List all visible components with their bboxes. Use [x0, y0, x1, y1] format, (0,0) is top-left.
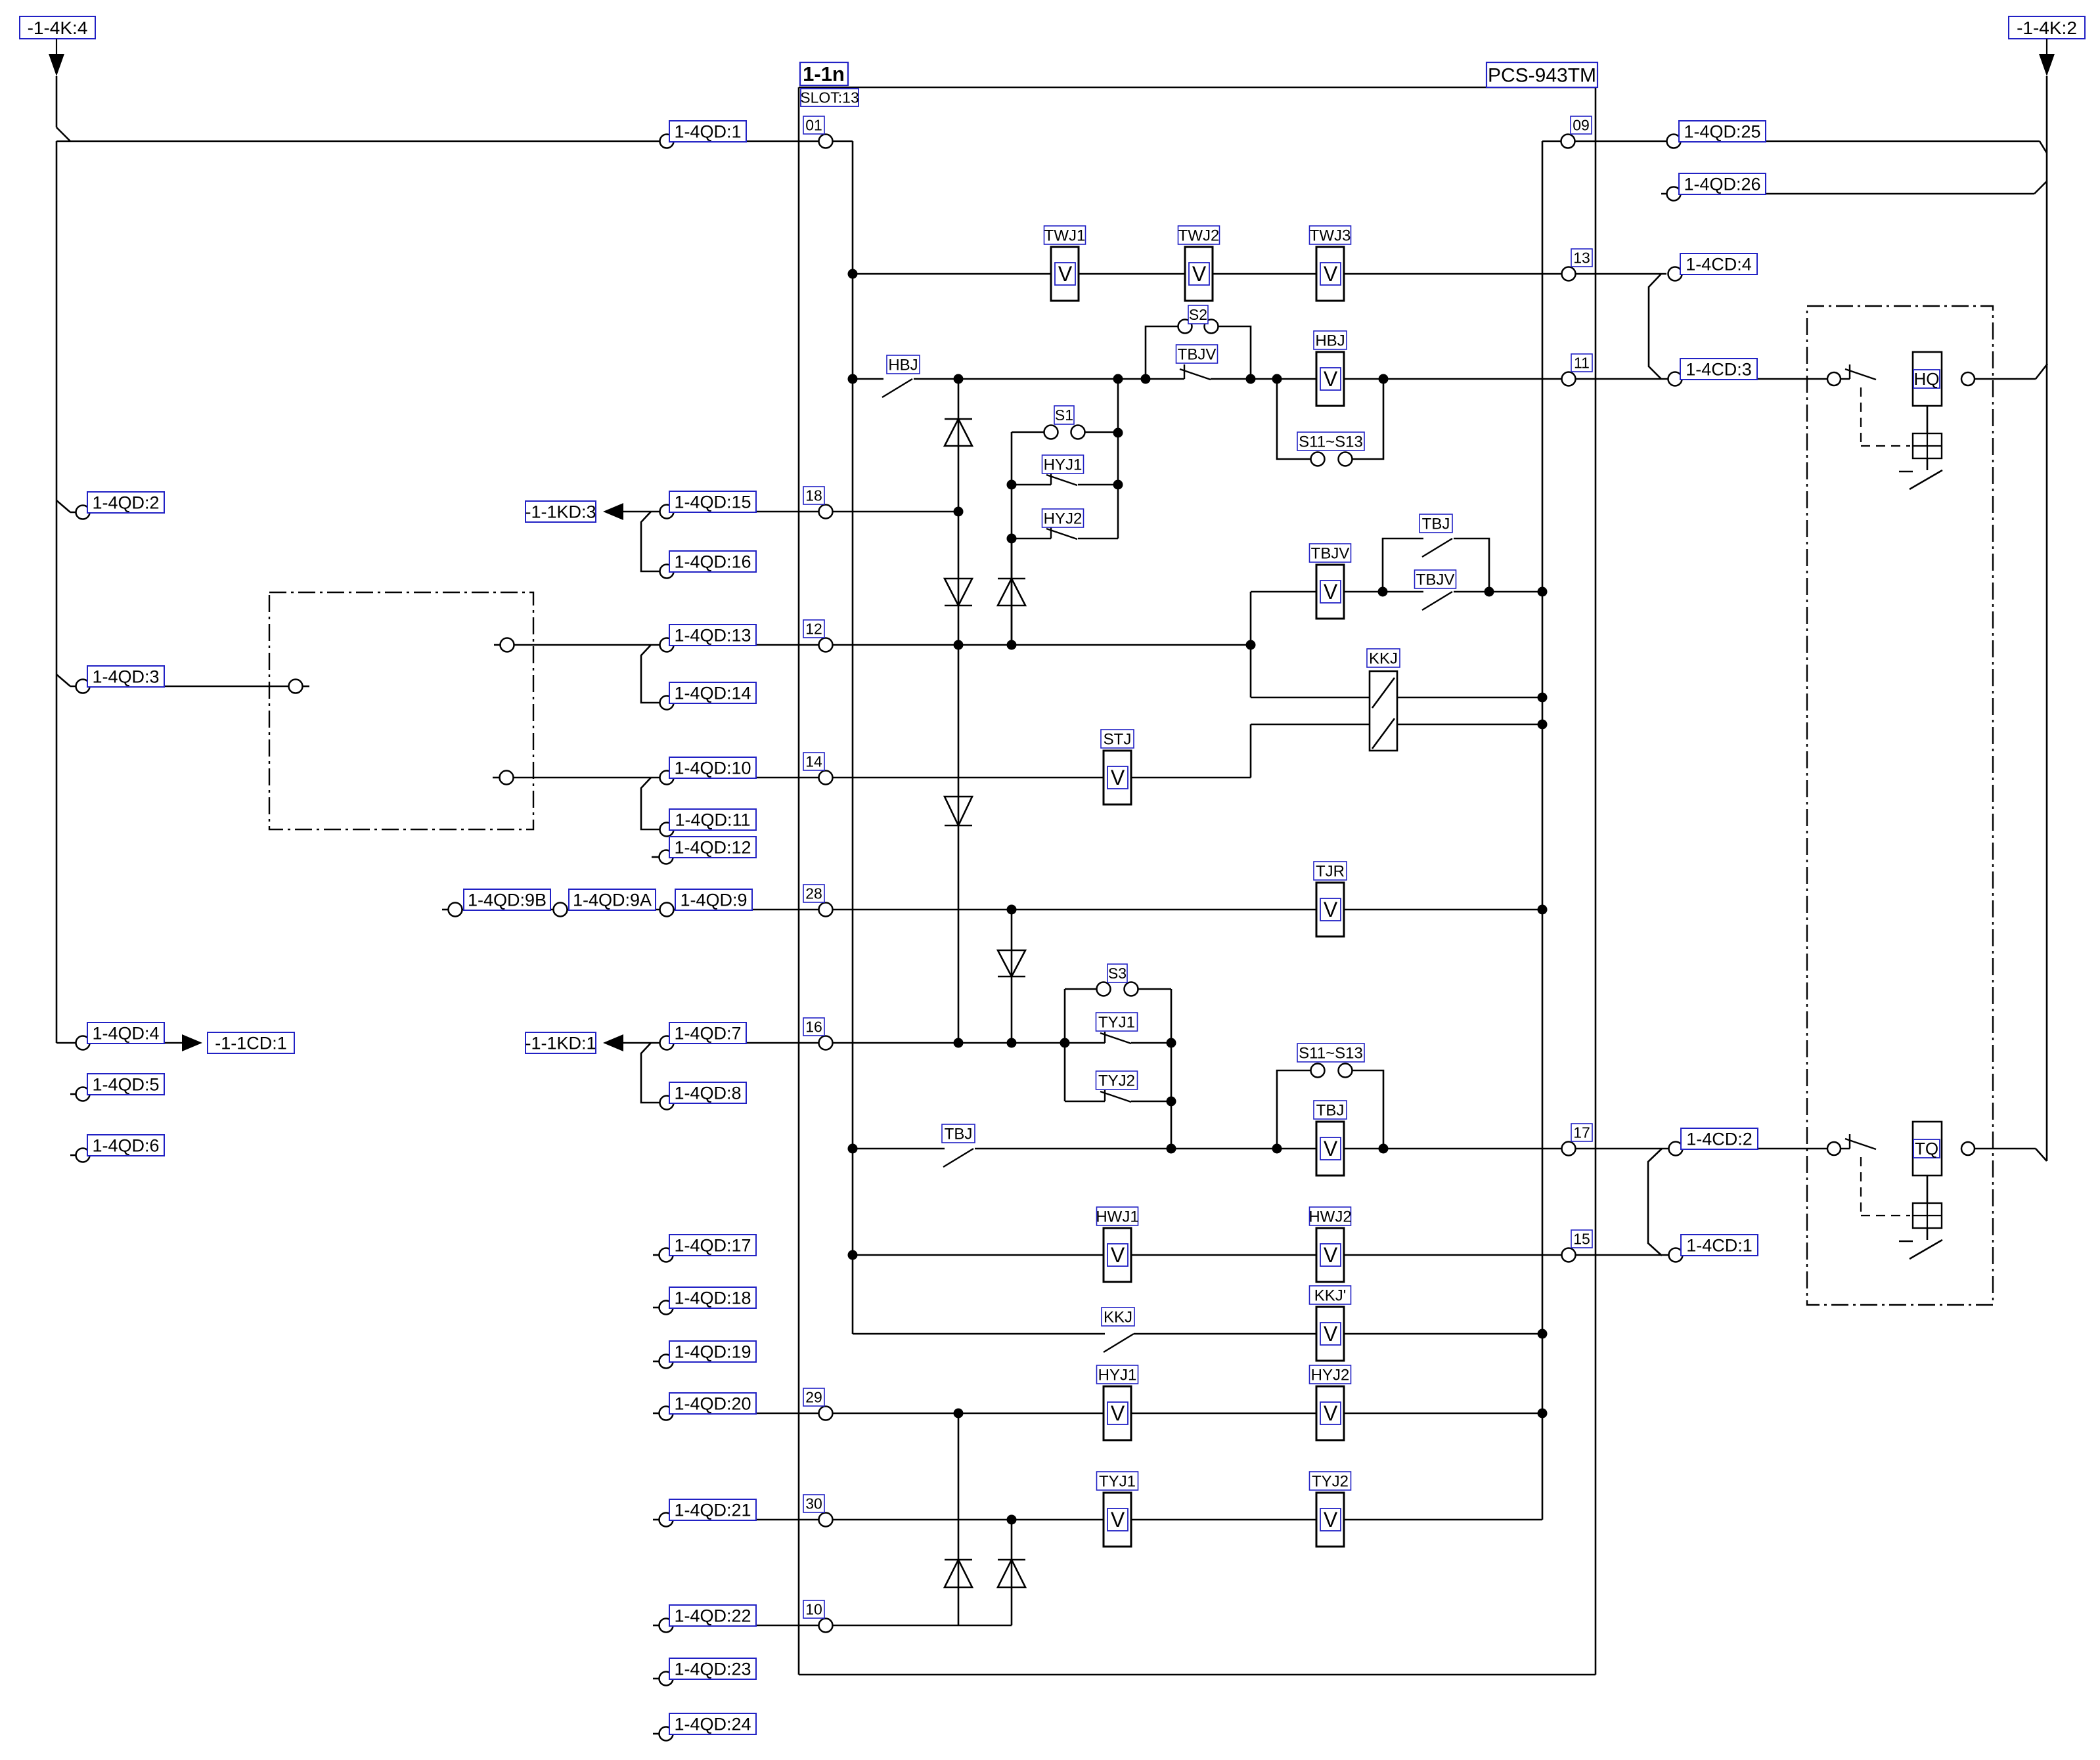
- label 1-4QD:19: [669, 1341, 756, 1362]
- label 1-4QD:25: [1679, 121, 1766, 142]
- wire row 11 middle segment: [914, 378, 1184, 380]
- junction node row11 / diode chain: [954, 374, 964, 384]
- terminal 1-4QD:2 circle: [76, 506, 90, 519]
- contact TBJ (upper, NO) bracket: [1383, 539, 1423, 592]
- svg-text:HBJ: HBJ: [1315, 332, 1345, 349]
- terminal 12 circle: [819, 638, 833, 652]
- coil TQ: [1913, 1122, 1942, 1176]
- wire row 30: [653, 1519, 659, 1521]
- svg-text:V: V: [1324, 1322, 1338, 1346]
- label 1-4QD:12: [669, 837, 756, 858]
- label 1-4QD:8: [669, 1082, 746, 1103]
- svg-text:TWJ3: TWJ3: [1310, 227, 1351, 244]
- label 1-4QD:18: [669, 1287, 756, 1308]
- label 1-4QD:22: [669, 1605, 756, 1626]
- junction node HYJ1 right: [1113, 480, 1123, 490]
- terminal 14 circle: [819, 771, 833, 785]
- svg-text:1-4QD:23: 1-4QD:23: [674, 1659, 751, 1679]
- svg-text:HWJ1: HWJ1: [1096, 1208, 1138, 1225]
- label S11~S13 upper: [1297, 432, 1364, 451]
- svg-text:STJ: STJ: [1104, 730, 1132, 748]
- svg-text:1-4QD:14: 1-4QD:14: [674, 684, 751, 703]
- svg-text:15: 15: [1573, 1231, 1590, 1248]
- svg-text:S11~S13: S11~S13: [1299, 1044, 1363, 1062]
- svg-text:TBJV: TBJV: [1178, 345, 1217, 363]
- terminal 01 circle: [819, 135, 833, 148]
- svg-text:1-4QD:9B: 1-4QD:9B: [468, 891, 547, 910]
- dash-dot box (circuit breaker, right): [1807, 306, 1993, 1305]
- dash-dot box (external equipment, left): [269, 592, 533, 829]
- svg-text:HYJ2: HYJ2: [1311, 1366, 1350, 1384]
- wire jog strap 1-4CD:4 to 1-4CD:3: [1649, 274, 1661, 379]
- junction node row11 / feed: [848, 374, 858, 384]
- svg-text:V: V: [1324, 898, 1338, 921]
- stub terminal 1-4QD:23: [653, 1678, 659, 1680]
- stub terminal 1-4QD:5: [70, 1093, 76, 1095]
- wire KKJ lower row: [1251, 724, 1542, 726]
- svg-text:TYJ2: TYJ2: [1098, 1072, 1135, 1089]
- junction node row11 / S11 left: [1272, 374, 1282, 384]
- relay coil HWJ1: [1104, 1228, 1131, 1282]
- wire S3 block left bracket: [1064, 989, 1066, 1101]
- contact TBJ (NO) row17: [943, 1149, 973, 1167]
- svg-text:1-4QD:1: 1-4QD:1: [674, 121, 741, 141]
- junction node TYJ2 right: [1167, 1097, 1176, 1107]
- svg-text:HYJ1: HYJ1: [1044, 456, 1083, 473]
- module 1-1n outline PCS-943TM: [799, 87, 1596, 89]
- junction node row17 / S11 left: [1272, 1144, 1282, 1154]
- terminal 1-4CD:4 circle: [1668, 267, 1682, 281]
- junction node row12 x1904: [1246, 640, 1256, 650]
- terminal 1-4QD:8 circle: [660, 1096, 674, 1110]
- label 1-4QD:13: [669, 625, 756, 646]
- coil HQ: [1913, 352, 1942, 406]
- junction node row17 / S11 right: [1379, 1144, 1389, 1154]
- wire HQ coil to operating box: [1927, 406, 1929, 433]
- terminal 09 circle: [1561, 135, 1575, 148]
- diode D1 (cathode up): [945, 419, 972, 446]
- label S1: [1054, 406, 1074, 424]
- wire TBJV coil row: [1251, 591, 1423, 593]
- switch S1 branch: [1012, 431, 1044, 433]
- junction node row28 / diode x1540: [1007, 905, 1017, 915]
- wire row of 1-4QD:1 to module terminal 01: [56, 141, 819, 143]
- terminal 18 circle: [819, 505, 833, 519]
- wire jog of 1-4QD:25 row into right bus: [2040, 141, 2047, 153]
- stub terminal 1-4QD:24: [653, 1733, 659, 1735]
- terminal 16 circle: [819, 1036, 833, 1050]
- wire branch to 1-4QD:8: [641, 1043, 659, 1103]
- junction node row29 / bus: [1538, 1409, 1548, 1419]
- svg-text:V: V: [1324, 1243, 1338, 1267]
- wire row 12: [514, 644, 1251, 646]
- terminal circle inside dashed box (left): [289, 680, 303, 693]
- relay coil TWJ2: [1185, 247, 1213, 301]
- relay coil KKJ': [1316, 1307, 1344, 1361]
- terminal 1-4QD:9 circle: [660, 903, 674, 917]
- breaker operating box (TQ): [1913, 1203, 1942, 1228]
- junction node row16 x1459: [954, 1038, 964, 1048]
- svg-text:16: 16: [805, 1019, 822, 1036]
- breaker aux contact circle (TQ side): [1827, 1142, 1841, 1155]
- svg-text:1-4QD:5: 1-4QD:5: [92, 1075, 159, 1095]
- terminal 11 circle: [1562, 372, 1576, 386]
- svg-text:S3: S3: [1108, 965, 1127, 982]
- relay coil TYJ2: [1316, 1493, 1344, 1547]
- terminal 1-4QD:20 circle: [659, 1407, 673, 1420]
- relay coil HYJ1: [1104, 1386, 1131, 1440]
- wire row 29: [653, 1413, 659, 1415]
- terminal 1-4QD:25 circle: [1667, 135, 1681, 148]
- junction node TBJV row / TBJ bracket left: [1378, 587, 1388, 597]
- stub terminal 1-4QD:6: [70, 1155, 76, 1156]
- svg-text:TWJ2: TWJ2: [1178, 227, 1220, 244]
- svg-text:V: V: [1111, 1508, 1125, 1531]
- svg-text:18: 18: [805, 487, 822, 504]
- junction node row11 / S2 right: [1246, 374, 1256, 384]
- wire TQ out to right bus: [1975, 1148, 2036, 1150]
- label 1-4CD:4: [1680, 253, 1757, 275]
- wire row 14: [513, 777, 1104, 779]
- contact breaker lower (TQ): [1899, 1241, 1913, 1243]
- wire branch to 1-4QD:11: [641, 778, 659, 829]
- svg-text:1-4QD:16: 1-4QD:16: [674, 552, 751, 572]
- wire diode vertical x1540 row28-row16: [1011, 910, 1013, 1043]
- contact HBJ (NO): [882, 379, 912, 397]
- svg-text:1-4CD:2: 1-4CD:2: [1686, 1130, 1753, 1149]
- terminal circle inside dashed box row12: [501, 638, 514, 652]
- svg-text:-1-4K:4: -1-4K:4: [28, 18, 88, 38]
- label 1-4QD:26: [1679, 173, 1766, 194]
- label 1-4QD:2: [87, 492, 164, 513]
- svg-text:1-4QD:4: 1-4QD:4: [92, 1024, 159, 1044]
- svg-text:13: 13: [1573, 250, 1590, 267]
- wire jog to 1-4QD:2: [56, 500, 70, 512]
- svg-text:1-4QD:21: 1-4QD:21: [674, 1500, 751, 1520]
- junction node row16 x1540: [1007, 1038, 1017, 1048]
- junction node row18 end: [954, 507, 964, 517]
- svg-text:10: 10: [805, 1601, 822, 1618]
- terminal circle inside dashed box row14: [500, 771, 514, 785]
- wire KKJ lower corner down to STJ row: [1250, 724, 1252, 778]
- terminal 1-4QD:9A circle: [554, 903, 568, 917]
- terminal 1-4QD:7 circle: [660, 1036, 674, 1050]
- stub left of dashed-box circle row14: [493, 777, 499, 779]
- wire jog of 1-4QD:26 row into right bus: [2034, 181, 2047, 194]
- terminal 1-4QD:4 circle: [76, 1036, 90, 1050]
- svg-text:1-4QD:9: 1-4QD:9: [680, 891, 747, 910]
- junction node row12 x1459: [954, 640, 964, 650]
- svg-text:1-1n: 1-1n: [803, 62, 845, 85]
- svg-text:28: 28: [805, 885, 822, 902]
- svg-text:TWJ1: TWJ1: [1044, 227, 1086, 244]
- svg-text:17: 17: [1573, 1124, 1590, 1141]
- relay coil HYJ2: [1316, 1386, 1344, 1440]
- diode D6 (cathode up): [945, 1560, 972, 1587]
- diode D5 (cathode down): [998, 950, 1025, 977]
- svg-text:TBJV: TBJV: [1311, 544, 1350, 562]
- svg-text:V: V: [1324, 580, 1338, 604]
- label 1-4CD:3: [1680, 359, 1757, 380]
- arrow to -1-1CD:1: [182, 1034, 202, 1051]
- wire row 09 out to 1-4QD:25 and right bus: [1542, 141, 2040, 143]
- svg-text:1-4QD:20: 1-4QD:20: [674, 1394, 751, 1413]
- svg-text:1-4CD:4: 1-4CD:4: [1686, 254, 1752, 274]
- wire jog of HQ row into right bus: [2036, 364, 2047, 379]
- diode D2 (cathode down): [945, 579, 972, 605]
- junction node TYJ1 left: [1060, 1038, 1070, 1048]
- terminal 1-4CD:1 circle: [1669, 1248, 1683, 1262]
- svg-text:1-4QD:6: 1-4QD:6: [92, 1136, 159, 1156]
- wire S3 block right bracket: [1171, 989, 1173, 1149]
- relay coil HWJ2: [1316, 1228, 1344, 1282]
- svg-text:1-4QD:10: 1-4QD:10: [674, 759, 751, 778]
- svg-text:PCS-943TM: PCS-943TM: [1488, 65, 1596, 87]
- terminal 1-4QD:21 circle: [659, 1513, 673, 1527]
- terminal 1-4QD:22 circle: [659, 1619, 673, 1633]
- svg-text:1-4CD:3: 1-4CD:3: [1686, 360, 1752, 380]
- relay coil TJR: [1316, 883, 1344, 936]
- wire HYJ left bracket vertical: [1011, 432, 1013, 645]
- junction node row28 / inner bus: [1538, 905, 1548, 915]
- svg-text:1-4CD:1: 1-4CD:1: [1686, 1236, 1753, 1256]
- wire row 1-4QD:3 into dashed box: [70, 686, 289, 688]
- svg-text:TYJ2: TYJ2: [1312, 1472, 1349, 1490]
- svg-text:1-4QD:13: 1-4QD:13: [674, 626, 751, 646]
- breaker aux contact circle (HQ side): [1827, 372, 1841, 385]
- wire diode vertical x1540 row30-row10: [1011, 1520, 1013, 1625]
- svg-text:1-4QD:26: 1-4QD:26: [1684, 174, 1760, 194]
- svg-text:1-4QD:15: 1-4QD:15: [674, 493, 751, 512]
- svg-text:1-4QD:7: 1-4QD:7: [674, 1024, 741, 1044]
- svg-text:V: V: [1111, 1401, 1125, 1425]
- wire branch to 1-4QD:16: [641, 512, 659, 571]
- junction node row30 / diode drop: [1007, 1515, 1017, 1525]
- label S2: [1188, 305, 1208, 324]
- svg-text:TBJ: TBJ: [1422, 515, 1450, 533]
- label 1-4QD:14: [669, 682, 756, 703]
- svg-text:11: 11: [1574, 355, 1590, 372]
- svg-text:-1-1KD:1: -1-1KD:1: [525, 1034, 596, 1053]
- diode D3 (cathode up): [998, 579, 1025, 605]
- svg-text:V: V: [1192, 262, 1207, 286]
- contact HYJ1 (with tick): [1012, 484, 1051, 486]
- terminal circle right of HQ: [1961, 372, 1975, 385]
- relay coil TBJV: [1316, 565, 1344, 619]
- wire left vertical bus from -1-4K:4: [56, 141, 58, 1043]
- relay coil TWJ3: [1316, 247, 1344, 301]
- terminal 1-4CD:2 circle: [1669, 1142, 1683, 1156]
- diode D7 (cathode up): [998, 1560, 1025, 1587]
- terminal 1-4QD:15 circle: [660, 505, 674, 519]
- module name label 1-1n: [800, 62, 848, 85]
- svg-text:14: 14: [805, 753, 822, 770]
- svg-text:30: 30: [805, 1495, 822, 1512]
- terminal 29 circle: [819, 1407, 833, 1420]
- svg-text:1-4QD:11: 1-4QD:11: [675, 810, 750, 830]
- label 1-4QD:11: [669, 809, 756, 830]
- wire branch to 1-4QD:14: [641, 645, 659, 703]
- terminal 1-4QD:10 circle: [660, 771, 674, 785]
- label 1-4QD:5: [87, 1074, 164, 1095]
- label 1-4QD:4: [87, 1023, 164, 1044]
- wire jog from -1-4K:4 into +bus row: [56, 127, 70, 141]
- junction node row17 / feed: [848, 1144, 858, 1154]
- label KKJ (box): [1367, 649, 1400, 667]
- junction node HYJ2 left: [1007, 534, 1017, 544]
- bypass S11~S13 (TBJ) bracket: [1277, 1070, 1311, 1149]
- switch S3 branch: [1065, 988, 1097, 990]
- wire diode chain vertical x1459 row11-row18: [958, 379, 960, 512]
- power source arrow -1-4K:2 (top right): [2009, 16, 2085, 39]
- terminal 1-4QD:1 circle: [660, 135, 674, 148]
- label 1-4QD:3: [87, 666, 164, 687]
- wire TBJV corner down to row12: [1250, 592, 1252, 697]
- label 1-4QD:16: [669, 551, 756, 572]
- svg-text:01: 01: [805, 117, 822, 134]
- junction node row11 / HYJ bracket: [1113, 374, 1123, 384]
- terminal 10 circle: [819, 1619, 833, 1633]
- svg-text:1-4QD:22: 1-4QD:22: [674, 1606, 751, 1625]
- wire row of 1-4QD:26: [1661, 193, 2034, 195]
- breaker operating box (HQ): [1913, 433, 1942, 458]
- svg-text:TBJ: TBJ: [945, 1125, 973, 1143]
- svg-text:S2: S2: [1189, 306, 1207, 323]
- svg-text:V: V: [1111, 1243, 1125, 1267]
- contact TBJV (with tick) on row 11: [1184, 364, 1185, 379]
- svg-text:1-4QD:9A: 1-4QD:9A: [573, 891, 652, 910]
- junction node row12 x1540: [1007, 640, 1017, 650]
- wire below operating box (TQ): [1927, 1228, 1929, 1240]
- label 1-4QD:10: [669, 757, 756, 778]
- wire TBJV row right segment: [1454, 591, 1542, 593]
- terminal 1-4QD:3 circle: [76, 680, 90, 693]
- contact breaker lower (HQ): [1899, 471, 1913, 473]
- terminal 30 circle: [819, 1513, 833, 1527]
- wire row 18: [623, 511, 958, 513]
- wire row 13 TWJ chain: [853, 273, 1666, 275]
- stub terminal 1-4QD:12: [652, 856, 659, 858]
- relay coil STJ: [1104, 751, 1131, 804]
- svg-text:HWJ2: HWJ2: [1308, 1208, 1351, 1225]
- wire diode chain vertical x1459 row18-row12: [958, 512, 960, 645]
- module slot label SLOT:13: [801, 89, 859, 106]
- svg-text:V: V: [1324, 367, 1338, 391]
- svg-text:1-4QD:8: 1-4QD:8: [674, 1084, 741, 1103]
- svg-text:HYJ1: HYJ1: [1098, 1366, 1137, 1384]
- junction node row29 / diode drop: [954, 1409, 964, 1419]
- svg-text:1-4QD:18: 1-4QD:18: [674, 1288, 751, 1308]
- label 1-4QD:7: [669, 1023, 746, 1044]
- wire jog of row17 into right bus: [2036, 1149, 2047, 1161]
- wire HYJ bracket right vertical from row11: [1117, 379, 1119, 539]
- svg-text:-1-1KD:3: -1-1KD:3: [525, 502, 596, 522]
- svg-text:S1: S1: [1055, 407, 1073, 424]
- module type label PCS-943TM: [1486, 62, 1597, 87]
- wire diode vertical x1459 row29-row10: [958, 1413, 960, 1625]
- wire row 28 through TJR to bus: [1104, 909, 1542, 911]
- svg-text:12: 12: [805, 621, 822, 638]
- label 1-4QD:17: [669, 1235, 756, 1256]
- svg-text:V: V: [1324, 1137, 1338, 1160]
- svg-text:S11~S13: S11~S13: [1299, 433, 1363, 451]
- stub terminal 1-4QD:19: [653, 1361, 659, 1363]
- wire row 16: [623, 1042, 1065, 1044]
- svg-text:V: V: [1111, 766, 1125, 789]
- wire HQ out to right bus: [1975, 378, 2036, 380]
- label 1-4CD:2: [1681, 1128, 1758, 1149]
- svg-text:V: V: [1324, 1508, 1338, 1531]
- terminal 1-4CD:3 circle: [1668, 372, 1682, 386]
- svg-text:1-4QD:12: 1-4QD:12: [674, 838, 751, 858]
- contact breaker aux (HQ, with tick): [1849, 364, 1850, 379]
- bypass switch S2 bracket: [1146, 326, 1178, 379]
- svg-text:TBJ: TBJ: [1316, 1101, 1345, 1119]
- contact TYJ2 (with tick): [1065, 1101, 1105, 1103]
- wire row 28: [449, 909, 1104, 911]
- contact breaker aux (TQ, with tick): [1849, 1134, 1850, 1149]
- wire row 11 segment to HQ aux contact: [1211, 378, 1850, 380]
- svg-text:09: 09: [1573, 117, 1590, 134]
- terminal 28 circle: [819, 903, 833, 917]
- relay KKJ latching element box: [1370, 671, 1397, 751]
- wire jog strap 1-4CD:2 to 1-4CD:1: [1648, 1149, 1662, 1256]
- junction node TBJV row / TBJ bracket right: [1485, 587, 1494, 597]
- arrow to -1-1KD:1: [603, 1034, 623, 1051]
- wire jog to 1-4QD:3: [56, 674, 70, 686]
- junction node row15 / feed: [848, 1250, 858, 1260]
- wire right supply bus vertical: [2046, 76, 2048, 1161]
- relay coil TYJ1: [1104, 1493, 1131, 1547]
- label 1-4QD:24: [669, 1713, 756, 1734]
- junction node TYJ1 right: [1167, 1038, 1176, 1048]
- wire TQ coil to operating box: [1927, 1176, 1929, 1203]
- wire row 15: [853, 1254, 1695, 1256]
- junction node row17 / TYJ bracket: [1167, 1144, 1176, 1154]
- svg-text:29: 29: [805, 1389, 822, 1406]
- junction node TBJV row / inner bus: [1538, 587, 1548, 597]
- svg-text:-1-1CD:1: -1-1CD:1: [215, 1034, 287, 1053]
- label 1-4QD:21: [669, 1499, 756, 1520]
- label 1-4QD:23: [669, 1658, 756, 1679]
- bypass S11~S13 (HBJ) bracket: [1277, 379, 1311, 459]
- junction node row13 / feed: [848, 269, 858, 279]
- wire row 10: [653, 1625, 659, 1627]
- wire KKJ' row: [853, 1333, 1105, 1335]
- svg-text:V: V: [1058, 262, 1073, 286]
- svg-text:1-4QD:3: 1-4QD:3: [92, 667, 159, 687]
- arrow to -1-1KD:3: [603, 503, 623, 520]
- wire diode chain vertical x1459 row12-row16: [958, 645, 960, 1043]
- terminal circle right of TQ: [1961, 1142, 1975, 1155]
- relay coil HBJ: [1316, 352, 1344, 406]
- diode D4 (cathode down): [945, 797, 972, 825]
- wire row 1-4QD:4 to -1-1CD:1: [56, 1042, 183, 1044]
- svg-text:KKJ: KKJ: [1369, 649, 1398, 667]
- contact TBJV (NO) second: [1422, 592, 1452, 610]
- label 1-4QD:6: [87, 1135, 164, 1156]
- terminal 1-4QD:26 circle: [1667, 187, 1681, 201]
- terminal 1-4QD:16 circle: [660, 565, 674, 579]
- stub terminal 1-4QD:17: [653, 1254, 659, 1256]
- wire row 17 left segment: [853, 1148, 945, 1150]
- svg-text:1-4QD:17: 1-4QD:17: [674, 1236, 751, 1256]
- svg-text:TYJ1: TYJ1: [1098, 1013, 1135, 1031]
- wire diode vertical x1540 HYJ2-row12: [1011, 539, 1013, 645]
- wire below operating box (HQ): [1927, 458, 1929, 470]
- power source arrow -1-4K:4 (top left): [20, 16, 95, 39]
- junction node KKJ lower / bus: [1538, 720, 1548, 730]
